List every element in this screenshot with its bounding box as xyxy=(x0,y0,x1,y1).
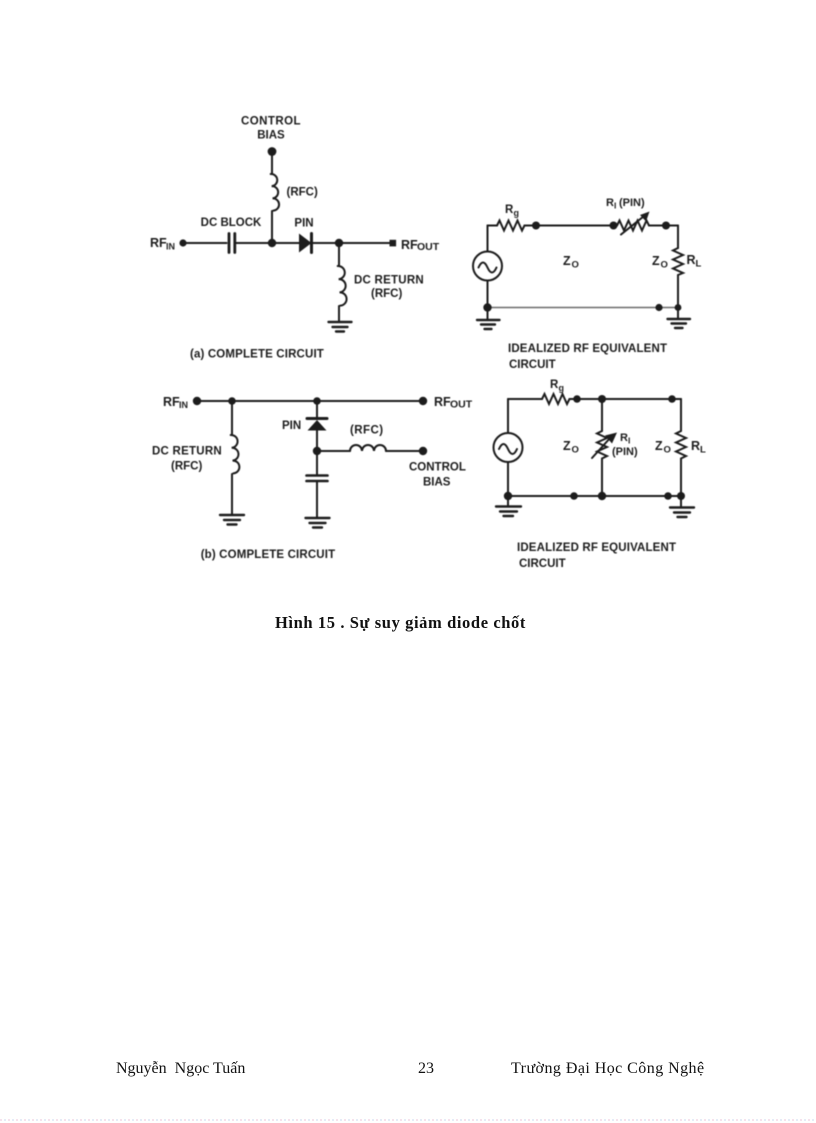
svg-text:IDEALIZED RF EQUIVALENT: IDEALIZED RF EQUIVALENT xyxy=(517,542,676,554)
svg-text:g: g xyxy=(559,383,565,393)
svg-text:R: R xyxy=(620,432,628,444)
svg-text:DC BLOCK: DC BLOCK xyxy=(201,217,262,229)
svg-text:O: O xyxy=(572,445,579,456)
svg-text:O: O xyxy=(664,445,671,456)
svg-text:RF: RF xyxy=(401,238,418,252)
svg-text:Z: Z xyxy=(655,439,663,453)
svg-text:RF: RF xyxy=(150,236,167,250)
svg-text:L: L xyxy=(696,259,702,270)
svg-text:PIN: PIN xyxy=(294,218,313,230)
svg-text:(RFC): (RFC) xyxy=(287,187,318,199)
svg-text:I: I xyxy=(628,436,630,446)
svg-text:g: g xyxy=(514,208,520,218)
svg-text:RF: RF xyxy=(163,395,180,409)
svg-text:BIAS: BIAS xyxy=(257,130,285,142)
svg-text:R: R xyxy=(687,253,696,267)
svg-text:PIN: PIN xyxy=(282,420,301,432)
svg-text:BIAS: BIAS xyxy=(423,477,451,489)
svg-text:CONTROL: CONTROL xyxy=(241,116,301,128)
svg-text:(b) COMPLETE CIRCUIT: (b) COMPLETE CIRCUIT xyxy=(201,549,336,561)
svg-text:OUT: OUT xyxy=(417,241,440,253)
svg-text:DC RETURN: DC RETURN xyxy=(152,446,222,458)
svg-text:Z: Z xyxy=(652,254,660,268)
svg-text:IN: IN xyxy=(166,242,175,252)
svg-text:RF: RF xyxy=(434,395,451,409)
svg-text:CIRCUIT: CIRCUIT xyxy=(519,558,566,570)
svg-text:L: L xyxy=(700,445,706,456)
svg-text:I: I xyxy=(614,201,616,211)
svg-text:Z: Z xyxy=(563,254,571,268)
svg-text:IN: IN xyxy=(179,400,188,410)
svg-text:Z: Z xyxy=(563,439,571,453)
svg-text:(RFC): (RFC) xyxy=(371,288,402,300)
svg-text:DC RETURN: DC RETURN xyxy=(354,275,424,287)
svg-text:O: O xyxy=(572,260,579,271)
svg-text:R: R xyxy=(691,439,700,453)
svg-text:O: O xyxy=(661,260,668,271)
svg-text:OUT: OUT xyxy=(450,399,473,411)
svg-text:(a) COMPLETE CIRCUIT: (a) COMPLETE CIRCUIT xyxy=(190,349,324,361)
svg-text:R: R xyxy=(606,197,614,209)
svg-text:(RFC): (RFC) xyxy=(171,461,202,473)
svg-text:CONTROL: CONTROL xyxy=(409,462,466,474)
svg-text:IDEALIZED RF EQUIVALENT: IDEALIZED RF EQUIVALENT xyxy=(508,343,667,355)
svg-text:CIRCUIT: CIRCUIT xyxy=(509,359,556,371)
svg-text:(PIN): (PIN) xyxy=(612,446,638,458)
svg-text:(PIN): (PIN) xyxy=(619,197,645,209)
svg-text:(RFC): (RFC) xyxy=(350,425,384,437)
